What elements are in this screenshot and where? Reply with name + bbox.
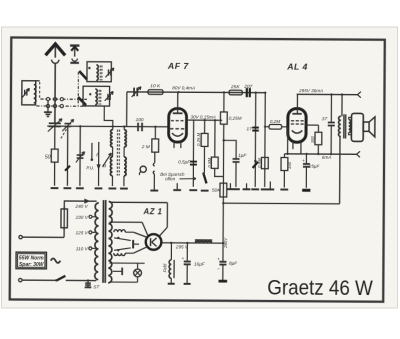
svg-text:6mA: 6mA: [322, 155, 331, 160]
svg-text:0,2M: 0,2M: [270, 119, 280, 124]
svg-text:+: +: [181, 257, 184, 262]
svg-text:AL 4: AL 4: [286, 62, 308, 72]
svg-text:17: 17: [246, 126, 252, 132]
svg-text:0,25M: 0,25M: [229, 115, 242, 120]
svg-text:55W Norm: 55W Norm: [19, 256, 44, 262]
svg-text:AF 7: AF 7: [167, 61, 190, 71]
svg-text:P.U.: P.U.: [86, 165, 94, 170]
svg-text:50: 50: [45, 155, 51, 161]
svg-text:25µF: 25µF: [308, 164, 321, 169]
svg-text:0,8M: 0,8M: [257, 158, 262, 168]
svg-text:30V 0,15mA: 30V 0,15mA: [191, 115, 216, 120]
svg-text:ℓ: ℓ: [95, 152, 98, 158]
svg-text:295V 36mA: 295V 36mA: [298, 88, 323, 93]
svg-text:37: 37: [322, 116, 328, 122]
svg-text:10 K: 10 K: [150, 83, 161, 89]
svg-text:+: +: [217, 258, 220, 263]
svg-text:Feld: Feld: [163, 263, 168, 272]
svg-text:50K: 50K: [212, 188, 221, 194]
svg-text:1µF: 1µF: [238, 153, 247, 159]
svg-text:M: M: [102, 163, 106, 168]
svg-text:207: 207: [243, 84, 252, 90]
svg-text:100: 100: [135, 117, 143, 123]
svg-text:350: 350: [310, 135, 315, 143]
svg-text:16µF: 16µF: [194, 262, 206, 267]
svg-text:0,8M: 0,8M: [207, 158, 212, 168]
svg-text:0,25 M: 0,25 M: [196, 132, 201, 146]
svg-text:offen: offen: [165, 176, 176, 181]
svg-text:2 M: 2 M: [141, 144, 150, 150]
svg-text:−: −: [217, 268, 220, 273]
svg-text:240 V: 240 V: [74, 204, 88, 209]
svg-text:110 V: 110 V: [76, 246, 89, 251]
svg-text:AZ 1: AZ 1: [143, 207, 163, 216]
svg-text:+: +: [302, 159, 305, 164]
svg-text:230 V: 230 V: [75, 215, 89, 220]
svg-text:25K: 25K: [230, 84, 240, 90]
svg-text:0,5µF: 0,5µF: [178, 159, 191, 164]
svg-text:125 V: 125 V: [76, 230, 89, 235]
svg-text:150: 150: [287, 161, 292, 169]
svg-text:8µF: 8µF: [229, 261, 238, 266]
svg-text:Graetz 46 W: Graetz 46 W: [267, 275, 373, 300]
svg-text:285V: 285V: [223, 237, 228, 249]
svg-text:Spar: 30W: Spar: 30W: [19, 262, 45, 268]
svg-text:80V 0,4mA: 80V 0,4mA: [172, 85, 195, 90]
